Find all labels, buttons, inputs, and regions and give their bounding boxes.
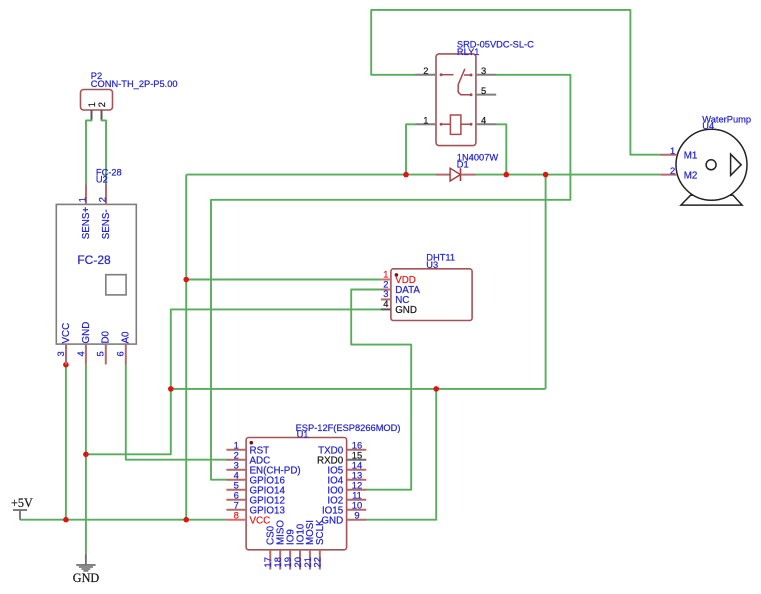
DHT11 pin 4 GND [381, 308, 391, 310]
ESP-12F pin 9 GND [347, 519, 367, 521]
svg-text:5: 5 [95, 351, 106, 356]
svg-text:2: 2 [96, 102, 107, 107]
motor U4 base stand [681, 195, 742, 205]
svg-text:4: 4 [383, 298, 388, 309]
wire GND net riser to diode cathode row [545, 175, 547, 389]
wire DHT11 VDD branch [186, 279, 381, 281]
wire relay pin4 to diode cathode row [496, 124, 506, 174]
DHT11 pin 3 NC [381, 298, 391, 300]
relay coil rectangle [450, 115, 461, 134]
svg-text:4: 4 [75, 351, 86, 356]
relay contact common segment pin2 [441, 74, 453, 76]
svg-text:5: 5 [481, 85, 486, 96]
wire +5V vertical riser x=186 [185, 175, 187, 520]
wire relay pin3 to ESP GPIO16 [211, 75, 570, 480]
svg-text:22: 22 [312, 557, 323, 567]
svg-text:1: 1 [77, 197, 88, 202]
svg-text:ESP-12F(ESP8266MOD): ESP-12F(ESP8266MOD) [296, 423, 401, 433]
svg-text:SENS-: SENS- [101, 209, 112, 239]
module U1 ESP-12F body [246, 438, 347, 550]
svg-text:1: 1 [423, 115, 428, 126]
relay contact dot pin5 [470, 93, 473, 96]
svg-text:8: 8 [234, 509, 239, 520]
svg-text:FC-28: FC-28 [77, 253, 111, 267]
ESP-12F pin1 marker dot [250, 441, 254, 445]
svg-text:SENS+: SENS+ [81, 207, 92, 240]
relay pin 2 [416, 74, 436, 76]
ESP-12F pin 2 ADC [226, 459, 246, 461]
motor U4 hub circle [706, 160, 716, 170]
svg-text:+5V: +5V [11, 496, 33, 510]
svg-text:A0: A0 [121, 331, 132, 344]
diode D1 cathode stub [461, 174, 476, 176]
wire DHT11 GND to GND net left [86, 309, 381, 454]
ESP-12F pin 5 GPIO14 [226, 489, 246, 491]
junction FC-28 GND / GND branch [83, 452, 89, 458]
connector P2 pin 2 [101, 110, 103, 120]
DHT11 pin 2 DATA [381, 289, 391, 291]
junction diode cathode / relay pin4 [504, 172, 510, 178]
wire FC-28 A0 to ESP ADC [126, 364, 227, 459]
relay coil wire [441, 123, 471, 125]
svg-text:GND: GND [81, 322, 92, 344]
ESP-12F pin 21 MOSI [309, 550, 311, 570]
svg-text:U4: U4 [702, 121, 714, 131]
ESP-12F pin 11 IO2 [347, 499, 367, 501]
relay pin 5 [476, 94, 496, 96]
pump pin 2 M2 [660, 174, 677, 176]
svg-text:GND: GND [395, 305, 417, 316]
ESP-12F pin 17 CS0 [269, 550, 271, 570]
connector P2 body [81, 90, 113, 111]
svg-text:U3: U3 [426, 260, 438, 270]
relay switch blade [458, 69, 471, 94]
DHT11 pin 1 VDD [381, 279, 391, 281]
ESP-12F pin 19 IO9 [289, 550, 291, 570]
ESP-12F pin 15 RXD0 [347, 459, 367, 461]
ESP-12F pin 14 IO5 [347, 469, 367, 471]
ESP-12F pin 22 SCLK [319, 550, 321, 570]
ESP-12F pin 12 IO0 [347, 489, 367, 491]
wire +5V rail to ESP VCC pin8 [20, 519, 226, 521]
svg-text:RLY1: RLY1 [457, 47, 480, 57]
svg-text:9: 9 [354, 509, 359, 520]
wire GND net drop to ESP GND pin9 [366, 389, 436, 520]
wire P2 pin1 to FC-28 SENS+ [86, 120, 92, 185]
wire diode row left segment (+5V net) [186, 174, 436, 176]
svg-text:CONN-TH_2P-P5.00: CONN-TH_2P-P5.00 [91, 79, 178, 89]
ESP-12F pin 10 IO15 [347, 509, 367, 511]
diode D1 body [450, 168, 460, 181]
wire FC-28 VCC down to +5V rail [65, 364, 67, 519]
FC-28 pin 4 GND [85, 344, 87, 364]
wire FC-28 GND down to ground symbol [85, 364, 87, 553]
relay RLY1 body [436, 54, 476, 146]
wire GND net horizontal row y=389 [171, 388, 546, 390]
pump pin 1 M1 [660, 154, 677, 156]
ESP-12F pin 7 GPIO13 [226, 509, 246, 511]
ESP-12F pin 6 GPIO12 [226, 499, 246, 501]
diode D1 anode stub [436, 174, 450, 176]
ESP-12F pin 3 EN(CH-PD) [226, 469, 246, 471]
junction GND row left [168, 386, 174, 392]
junction +5V rail / riser [183, 517, 189, 523]
wire relay pin1 to diode anode row [406, 124, 416, 174]
FC-28 pin 6 A0 [125, 344, 127, 364]
power +5V symbol [19, 510, 21, 520]
motor U4 pump circle [676, 129, 747, 200]
svg-text:3: 3 [55, 351, 66, 356]
svg-text:1: 1 [670, 145, 675, 156]
ground symbol [85, 554, 87, 565]
junction GND row / ESP GND drop [433, 386, 439, 392]
junction +5V riser / DHT VDD [183, 277, 189, 283]
svg-text:SCLK: SCLK [315, 519, 326, 545]
svg-text:M2: M2 [684, 170, 698, 181]
svg-text:2: 2 [423, 65, 428, 76]
svg-text:2: 2 [97, 197, 108, 202]
svg-text:U1: U1 [297, 430, 309, 440]
ESP-12F pin 20 IO10 [299, 550, 301, 570]
sensor U3 DHT11 body [391, 269, 472, 321]
sensor U2 FC-28 body [56, 204, 136, 344]
svg-text:U2: U2 [96, 175, 108, 185]
wire DHT11 DATA to ESP IO0 [351, 290, 411, 490]
ESP-12F pin 1 RST [226, 449, 246, 451]
wire relay pin2 to top rail to WaterPump M1 [371, 10, 660, 155]
svg-text:3: 3 [481, 65, 486, 76]
FC-28 pin 3 VCC [65, 344, 67, 364]
svg-text:M1: M1 [684, 150, 698, 161]
relay pin 4 [476, 123, 496, 125]
svg-text:VCC: VCC [250, 515, 271, 526]
svg-text:6: 6 [115, 351, 126, 356]
svg-text:D1: D1 [457, 159, 469, 169]
motor U4 impeller triangle [731, 154, 742, 175]
svg-text:D0: D0 [101, 330, 112, 343]
junction diode cathode row / GND riser [543, 172, 549, 178]
svg-text:4: 4 [481, 115, 486, 126]
DHT11 pin1 marker dot [395, 273, 399, 277]
wire P2 pin2 to FC-28 SENS- [102, 120, 107, 185]
ESP-12F pin 18 MISO [279, 550, 281, 570]
wire diode row right segment to pump M2 (GND net) [476, 174, 660, 176]
ESP-12F pin 13 IO4 [347, 479, 367, 481]
ESP-12F pin 4 GPIO16 [226, 479, 246, 481]
FC-28 pin 5 D0 [105, 344, 107, 364]
svg-text:2: 2 [670, 165, 675, 176]
svg-text:GND: GND [73, 571, 100, 585]
junction diode anode / relay pin1 [403, 172, 409, 178]
junction +5V rail / FC-28 VCC [63, 517, 69, 523]
FC-28 pin 1 SENS+ [85, 184, 87, 204]
svg-text:VCC: VCC [61, 323, 72, 344]
junction FC-28 VCC pin [63, 362, 69, 368]
relay contact segment pin3 [464, 74, 471, 76]
connector P2 pin 1 [91, 110, 93, 120]
ESP-12F pin 8 VCC [226, 519, 246, 521]
FC-28 inner square graphic [106, 275, 126, 295]
FC-28 pin 2 SENS- [105, 184, 107, 204]
relay pin 3 [476, 74, 496, 76]
diode D1 cathode bar [460, 168, 462, 181]
relay pin 1 [416, 123, 436, 125]
ESP-12F pin 16 TXD0 [347, 449, 367, 451]
